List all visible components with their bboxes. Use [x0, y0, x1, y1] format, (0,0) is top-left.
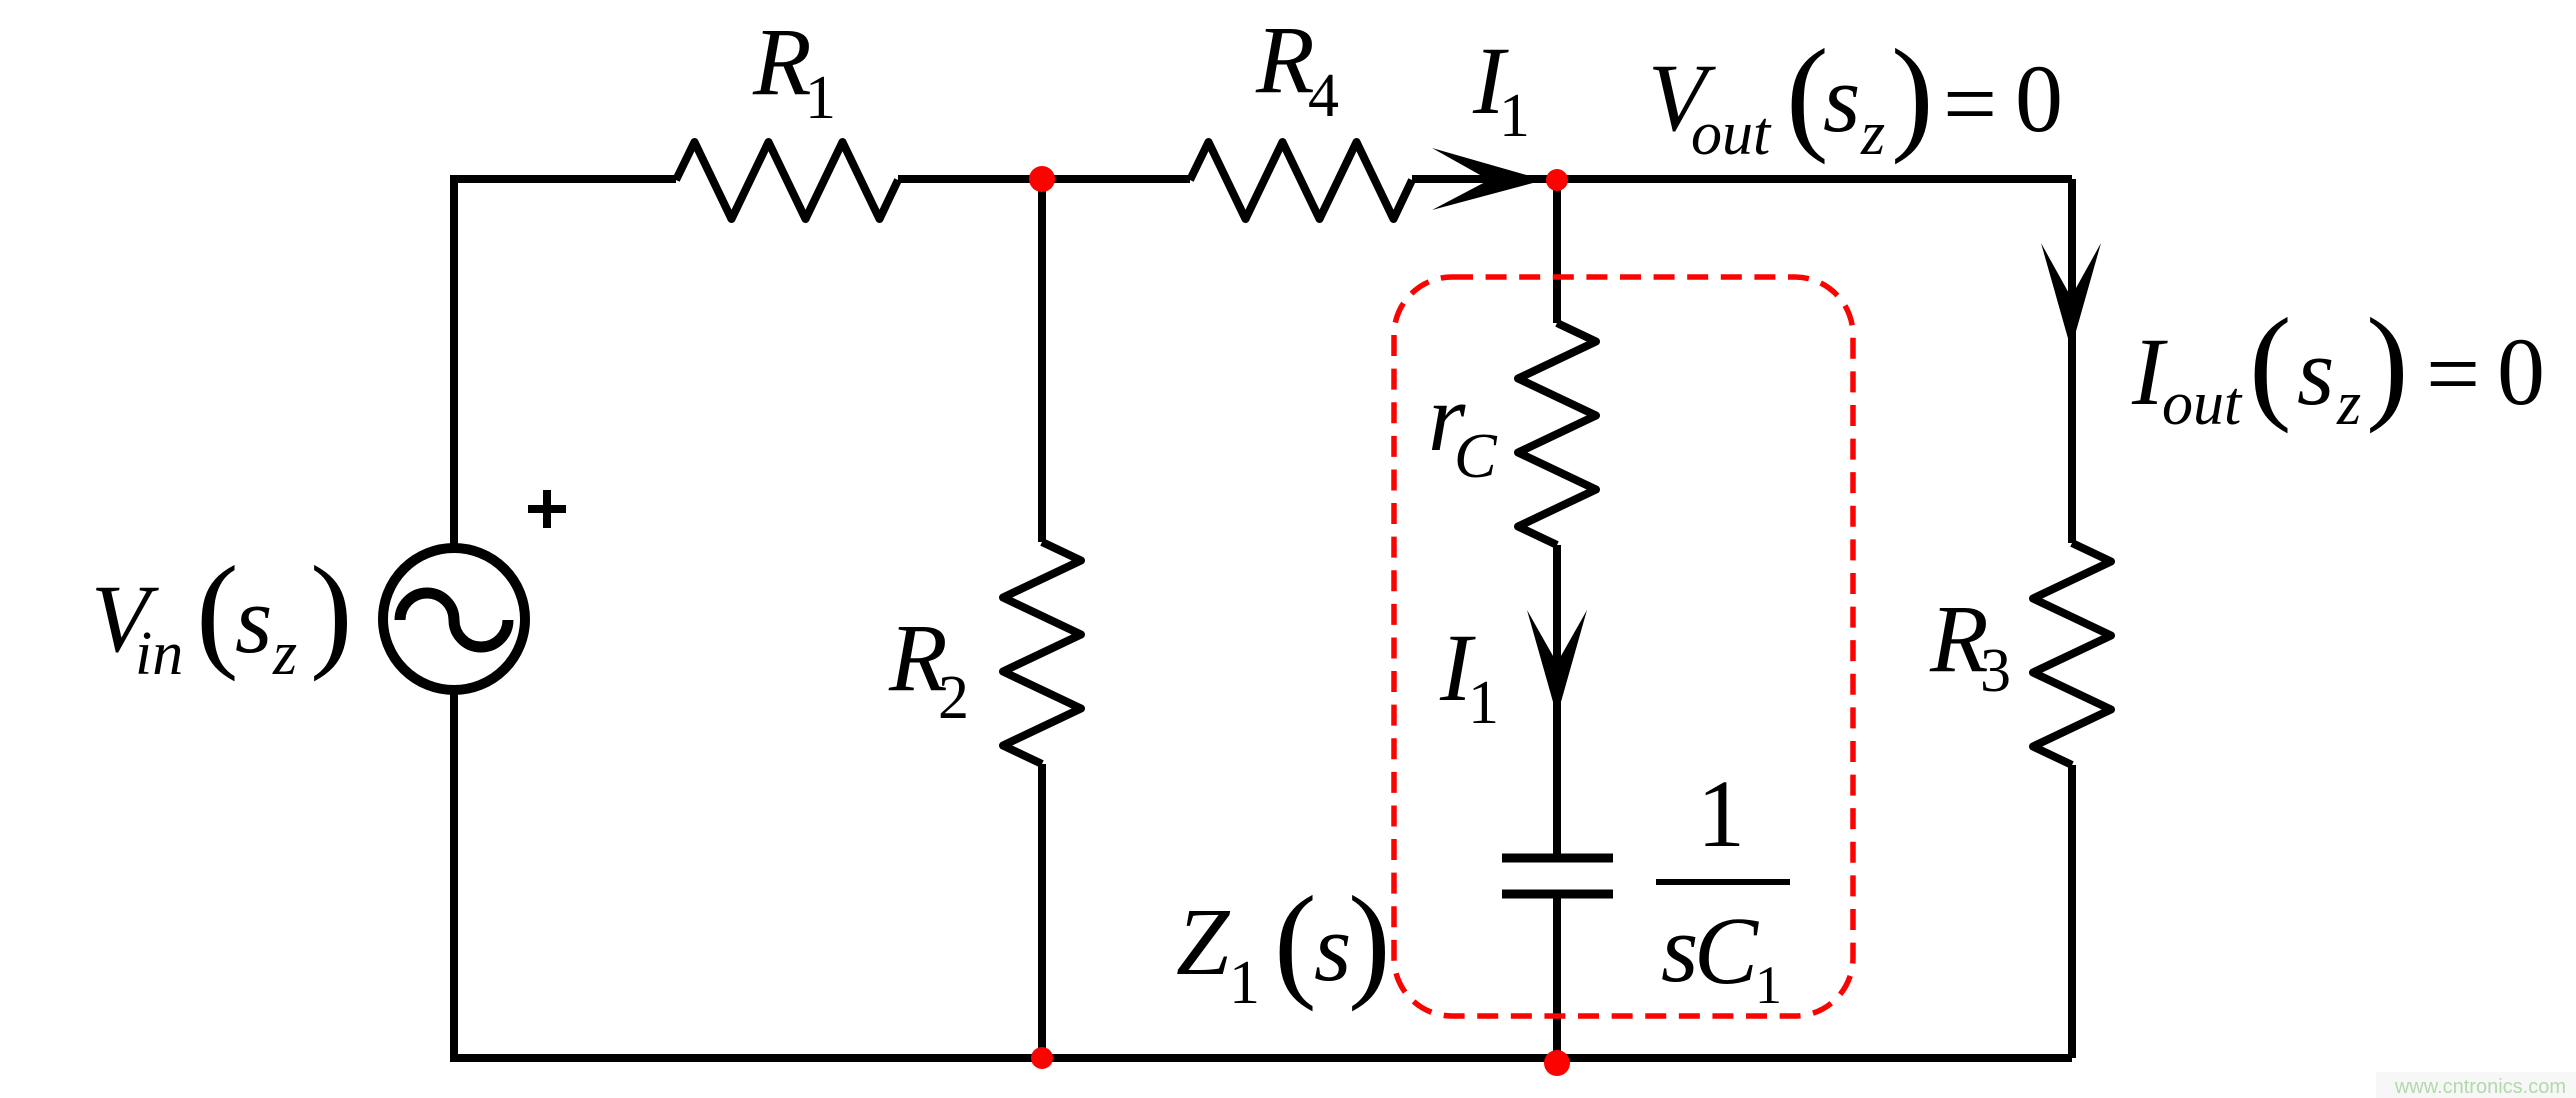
label R2: [888, 604, 969, 732]
arrow I1 vertical direction: [1527, 610, 1587, 716]
svg-text:0: 0: [2497, 318, 2545, 425]
label 1/sC1 capacitor value: [1656, 760, 1790, 1015]
label R3: [1929, 585, 2011, 705]
svg-text:(: (: [1274, 870, 1317, 1012]
dashed box Z1(s): [1394, 277, 1853, 1016]
label I1 middle: [1439, 614, 1499, 737]
svg-text:s: s: [2297, 318, 2334, 425]
svg-text:2: 2: [938, 664, 969, 732]
svg-text:in: in: [135, 620, 183, 688]
resistor R3: [2033, 543, 2111, 765]
svg-text:): ): [1348, 870, 1391, 1012]
resistor rC: [1518, 323, 1596, 545]
label R1: [752, 8, 836, 132]
capacitor C1 plate bottom: [1502, 890, 1613, 899]
svg-text:3: 3: [1980, 637, 2011, 705]
svg-text:s: s: [1661, 895, 1698, 1002]
capacitor C1 plate top: [1502, 854, 1613, 863]
resistor R1: [676, 142, 898, 219]
label Z1(s): [1176, 870, 1391, 1017]
label Vout(sz)=0: [1648, 23, 2063, 168]
svg-text:=: =: [2426, 320, 2480, 427]
wire: right rail upper: [2068, 179, 2076, 543]
source V_in circle U1: [383, 548, 525, 690]
svg-text:): ): [2366, 292, 2409, 434]
wire: Z1 branch middle (rC to capacitor): [1553, 545, 1561, 858]
svg-text:): ): [310, 540, 353, 682]
resistor R4: [1190, 142, 1412, 219]
wire: left rail lower (source to bottom rail): [450, 688, 458, 1062]
node B: top Z1 junction: [1546, 169, 1568, 191]
node C: bottom R2 junction: [1031, 1047, 1053, 1069]
label I1 top: [1472, 27, 1530, 150]
svg-text:1: 1: [1229, 949, 1260, 1017]
svg-text:Z: Z: [1176, 888, 1231, 995]
node D: bottom Z1 junction: [1544, 1050, 1570, 1076]
wire: Z1 branch bottom (capacitor to bottom rail): [1553, 894, 1561, 1058]
svg-text:s: s: [1823, 45, 1860, 152]
svg-text:1: 1: [1499, 82, 1530, 150]
svg-text:1: 1: [1468, 669, 1499, 737]
label Vin(sz): [91, 540, 353, 688]
svg-text:s: s: [235, 566, 272, 673]
wire: left rail upper (source to top rail): [450, 175, 458, 550]
svg-text:www.cntronics.com: www.cntronics.com: [2394, 1076, 2566, 1098]
svg-text:s: s: [1314, 894, 1351, 1001]
svg-text:(: (: [196, 540, 239, 682]
svg-text:out: out: [1691, 100, 1772, 168]
wire: top rail from source top-left corner to top-right corner: [454, 175, 2072, 183]
label rC: [1428, 364, 1498, 491]
resistor R2: [1003, 542, 1081, 764]
svg-text:C: C: [1454, 420, 1498, 491]
wire: right rail lower: [2068, 765, 2076, 1058]
svg-text:0: 0: [2015, 45, 2063, 152]
svg-text:out: out: [2162, 370, 2243, 438]
svg-text:1: 1: [1697, 760, 1745, 867]
svg-text:C: C: [1694, 897, 1759, 1004]
svg-text:1: 1: [1755, 955, 1782, 1015]
watermark: [2376, 1072, 2576, 1098]
svg-text:z: z: [1860, 100, 1885, 168]
node A: top R2 junction: [1029, 166, 1055, 192]
plus polarity mark: [528, 490, 566, 528]
wire: R2 branch upper: [1038, 179, 1046, 542]
svg-text:(: (: [2249, 292, 2292, 434]
label R4: [1255, 6, 1339, 130]
svg-text:=: =: [1943, 50, 1997, 157]
wire: R2 branch lower: [1038, 764, 1046, 1058]
svg-text:R: R: [752, 8, 812, 115]
label Iout(sz)=0: [2131, 292, 2545, 438]
wire: Z1 branch top (node to rC): [1553, 179, 1561, 323]
svg-text:): ): [1891, 23, 1934, 165]
arrow I1 horizontal direction: [1432, 148, 1544, 210]
svg-text:1: 1: [805, 64, 836, 132]
svg-text:z: z: [2336, 370, 2361, 438]
wire: bottom rail: [454, 1054, 2072, 1062]
arrow Iout direction: [2041, 243, 2101, 349]
svg-text:z: z: [272, 620, 297, 688]
svg-text:4: 4: [1308, 62, 1339, 130]
sine symbol inside source: [400, 593, 508, 647]
svg-text:R: R: [1255, 6, 1315, 113]
